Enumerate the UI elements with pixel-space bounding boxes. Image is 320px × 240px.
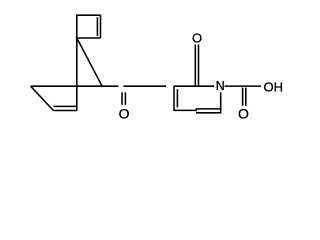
carboxyl C=O double bond line b [245, 88, 247, 106]
svg-text:O: O [119, 105, 130, 121]
cyclobutene double bond inner line [96, 17, 98, 36]
pyridone C=O double bond line a [194, 45, 196, 87]
svg-text:N: N [216, 79, 225, 93]
pyridone ring bottom double bond inner line [196, 108, 221, 110]
long vertical: square left edge down through spiro junction [76, 15, 78, 111]
pyridone C=O double bond line b [198, 45, 200, 87]
svg-text:O: O [238, 106, 249, 122]
chain horizontal (carbonyl to ring) [123, 85, 166, 87]
pyridone ring bottom-right edge [196, 112, 221, 114]
N to carboxyl bond [225, 85, 262, 87]
left ring double bond inner line [53, 105, 76, 107]
carboxyl C=O double bond line a [242, 88, 244, 106]
main chain horizontal (left of carbonyl gap) [31, 85, 119, 87]
cyclobutene square top edge [76, 14, 100, 16]
cyclopropane diagonal [77, 38, 102, 86]
cyclobutene square bottom edge [76, 37, 101, 39]
svg-text:O: O [192, 30, 202, 45]
ketone C=O double bond line b [124, 92, 126, 105]
cyclobutene square right edge [100, 15, 102, 39]
svg-text:OH: OH [264, 79, 284, 94]
left ring bottom edge [53, 110, 77, 112]
pyridone ring left edge [173, 86, 175, 111]
pyridone ring right edge [220, 92, 222, 113]
ketone C=O double bond line a [121, 92, 123, 105]
pyridone ring left double bond inner line [176, 89, 178, 107]
pyridone ring top edge [174, 85, 214, 87]
pyridone ring bottom-left edge [173, 109, 197, 111]
left ring diagonal [31, 86, 54, 110]
